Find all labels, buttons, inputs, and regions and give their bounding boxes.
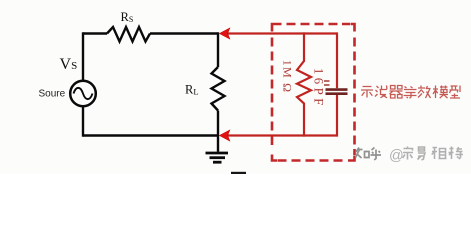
svg-text:1M Ω: 1M Ω — [281, 60, 295, 93]
char 特 — [449, 147, 464, 160]
char 示 — [361, 87, 373, 98]
resistor 1M ohm (probe model) — [297, 32, 311, 136]
char 知 — [356, 148, 370, 159]
char 宗 — [403, 147, 414, 160]
resistor RL — [212, 67, 225, 111]
wire: left column upper — [82, 32, 84, 80]
wire: red bottom lead to probe model — [228, 134, 337, 136]
node B arrow (bottom) — [220, 130, 230, 141]
wire: top from RS to node A — [150, 32, 218, 34]
wire: top-left from source to RS — [83, 32, 107, 34]
svg-text:16PF: 16PF — [312, 68, 326, 109]
node A arrow (top) — [220, 28, 230, 39]
wire: red top lead to probe model — [228, 32, 337, 34]
svg-text:Soure: Soure — [39, 88, 66, 99]
sine wave of source — [74, 88, 93, 99]
stray mark near 16PF — [324, 81, 330, 85]
label: oscilloscope equivalent model (red CJK pseudo-glyphs) — [361, 86, 460, 99]
capacitor plates — [326, 88, 348, 91]
char 等 — [404, 87, 417, 99]
char 易 — [418, 147, 426, 160]
wire: bottom from source to ground node — [83, 134, 219, 136]
watermark: zhihu @user (gray CJK pseudo-glyphs) — [356, 148, 382, 161]
wire: right column lower — [217, 111, 219, 136]
char 乎 — [371, 148, 382, 161]
char 模 — [433, 86, 448, 99]
char 波 — [375, 86, 387, 98]
wire: left column lower — [82, 107, 84, 137]
char 效 — [418, 86, 431, 99]
char 租 — [432, 148, 447, 160]
resistor RS — [107, 27, 150, 42]
source VS circle — [70, 81, 96, 107]
caption fragment at bottom edge — [231, 172, 246, 174]
probe model dashed box — [272, 24, 355, 161]
char 器 — [390, 86, 403, 99]
char 型 — [450, 86, 461, 99]
ground — [217, 136, 219, 152]
capacitor C 16PF (probe model) — [336, 32, 338, 88]
wire: right column upper — [217, 32, 219, 67]
svg-text:@: @ — [389, 148, 404, 164]
